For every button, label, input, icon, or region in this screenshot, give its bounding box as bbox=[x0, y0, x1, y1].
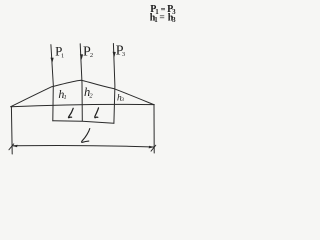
wire: load line P3 bbox=[113, 44, 115, 124]
cable curve (funicular polygon through supports) bbox=[11, 80, 154, 106]
tick slash at right end of L dimension bbox=[151, 145, 156, 151]
svg-text:h1=h3: h1=h3 bbox=[150, 13, 176, 25]
chord line between supports bbox=[11, 104, 154, 106]
svg-text:h1: h1 bbox=[58, 87, 66, 101]
svg-text:h3: h3 bbox=[117, 94, 124, 104]
arrowhead right end of L dimension bbox=[149, 146, 155, 149]
svg-text:P3: P3 bbox=[116, 44, 125, 59]
wire: load line P2 bbox=[80, 44, 82, 121]
structural diagram: three-point loaded cable/funicular figure bbox=[0, 0, 189, 165]
label l (right half-span), hand-script ell bbox=[95, 108, 99, 118]
arrowhead of load P3 bbox=[113, 52, 116, 58]
tick slash at left end of L dimension bbox=[9, 144, 14, 150]
wire: l-dimension line under chord bbox=[53, 121, 114, 124]
wire: right extension line bbox=[153, 105, 155, 153]
arrowhead of load P2 bbox=[80, 54, 83, 60]
arrowhead of load P1 bbox=[51, 58, 54, 64]
svg-text:P1: P1 bbox=[55, 44, 64, 60]
svg-text:h2: h2 bbox=[84, 85, 93, 100]
label L (full span), hand-script bbox=[82, 129, 90, 143]
arrowhead left end of L dimension bbox=[12, 145, 17, 148]
svg-text:P2: P2 bbox=[83, 44, 93, 59]
wire: load line P1 (line of action, extends to dimension line) bbox=[51, 45, 53, 121]
wire: L dimension line bbox=[12, 145, 154, 147]
wire: left extension line bbox=[10, 107, 13, 154]
label l (left half-span), hand-script ell bbox=[68, 108, 73, 117]
